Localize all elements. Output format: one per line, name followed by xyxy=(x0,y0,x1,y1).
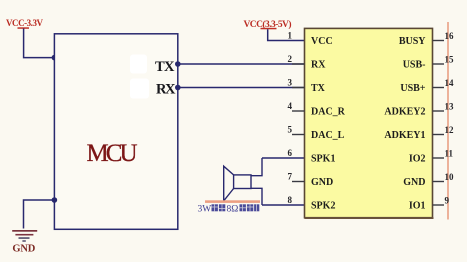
wire TX to U1 pin2 RX xyxy=(178,63,305,65)
svg-text:6: 6 xyxy=(288,148,293,158)
U1 pin 9 IO1 xyxy=(409,196,450,212)
salmon highlight band xyxy=(205,200,260,203)
svg-text:15: 15 xyxy=(445,55,455,65)
node junction RX xyxy=(175,85,181,91)
svg-text:GND: GND xyxy=(12,244,35,255)
U1 pin 1 VCC xyxy=(288,31,333,48)
svg-text:GND: GND xyxy=(311,177,333,188)
svg-text:8: 8 xyxy=(288,195,293,205)
sheet border line (salmon) xyxy=(447,22,449,220)
svg-text:VCC: VCC xyxy=(311,36,333,47)
speaker LS1 xyxy=(224,158,262,205)
wire speaker top to U1 pin6 SPK1 xyxy=(262,157,305,159)
svg-text:DAC_R: DAC_R xyxy=(311,107,346,118)
svg-text:GND: GND xyxy=(403,177,425,188)
svg-text:TX: TX xyxy=(155,59,175,75)
U1 pin 5 DAC_L xyxy=(288,125,345,142)
U1 pin 11 IO2 xyxy=(409,149,454,165)
svg-text:7: 7 xyxy=(288,172,293,182)
U1 IC box xyxy=(305,28,433,217)
svg-text:3: 3 xyxy=(288,78,293,88)
wire speaker bottom to U1 pin8 SPK2 xyxy=(262,204,305,206)
U1 pin 8 SPK2 xyxy=(288,195,336,212)
U1 pin 15 USB- xyxy=(403,55,454,71)
U1 pin 16 BUSY xyxy=(399,31,454,47)
U1 pin 6 SPK1 xyxy=(288,148,336,165)
svg-text:RX: RX xyxy=(156,82,176,98)
svg-text:MCU: MCU xyxy=(87,140,138,167)
node junction VCC on MCU left edge xyxy=(52,55,58,61)
svg-text:SPK2: SPK2 xyxy=(311,201,335,212)
U1 pin 2 RX xyxy=(288,54,327,71)
svg-text:BUSY: BUSY xyxy=(399,36,426,47)
svg-text:USB-: USB- xyxy=(403,60,426,71)
svg-text:14: 14 xyxy=(445,78,455,88)
svg-text:8Ω: 8Ω xyxy=(227,205,239,215)
svg-text:13: 13 xyxy=(445,102,455,112)
node junction TX xyxy=(175,61,181,67)
wire RX to U1 pin3 TX xyxy=(178,87,305,89)
U1 pin 3 TX xyxy=(288,78,326,95)
U1 pin 13 ADKEY2 xyxy=(384,102,454,118)
svg-text:16: 16 xyxy=(445,31,455,41)
svg-text:USB+: USB+ xyxy=(400,83,425,94)
white patch behind TX xyxy=(130,55,147,74)
svg-text:IO2: IO2 xyxy=(409,154,426,165)
svg-text:11: 11 xyxy=(445,149,454,159)
U1 box bottom shadow xyxy=(305,217,434,219)
U1 pin 12 ADKEY1 xyxy=(384,125,454,141)
svg-text:ADKEY1: ADKEY1 xyxy=(384,130,425,141)
svg-text:VCC-3.3V: VCC-3.3V xyxy=(6,18,44,28)
svg-text:5: 5 xyxy=(288,125,293,135)
svg-text:3W: 3W xyxy=(198,205,212,215)
svg-text:RX: RX xyxy=(311,60,326,71)
svg-text:DAC_L: DAC_L xyxy=(311,130,345,141)
svg-text:SPK1: SPK1 xyxy=(311,154,335,165)
node junction GND on MCU left edge xyxy=(52,197,58,203)
U1 pin 4 DAC_R xyxy=(288,101,346,118)
power net VCC-3.3V label xyxy=(6,18,44,29)
svg-text:12: 12 xyxy=(445,125,455,135)
power net VCC(3.3-5V) label xyxy=(244,19,292,30)
svg-text:10: 10 xyxy=(445,172,455,182)
svg-text:IO1: IO1 xyxy=(409,201,426,212)
wire VCC-3.3V to MCU xyxy=(24,29,55,58)
svg-text:TX: TX xyxy=(311,83,326,94)
U1 pin 10 GND xyxy=(403,172,454,188)
svg-text:4: 4 xyxy=(288,101,293,111)
wire MCU to ground xyxy=(24,200,55,229)
wire VCC(3.3-5V) to U1 pin1 xyxy=(268,29,305,40)
ground symbol xyxy=(12,230,37,242)
speaker note 3W 8ohm label xyxy=(198,204,260,214)
U1 pin 7 GND xyxy=(288,172,334,189)
svg-text:ADKEY2: ADKEY2 xyxy=(384,107,425,118)
svg-text:1: 1 xyxy=(288,31,293,41)
MCU U? box xyxy=(54,34,177,230)
svg-text:9: 9 xyxy=(445,196,450,206)
svg-text:2: 2 xyxy=(288,54,293,64)
U1 pin 14 USB+ xyxy=(400,78,454,94)
white patch behind RX xyxy=(130,79,149,99)
